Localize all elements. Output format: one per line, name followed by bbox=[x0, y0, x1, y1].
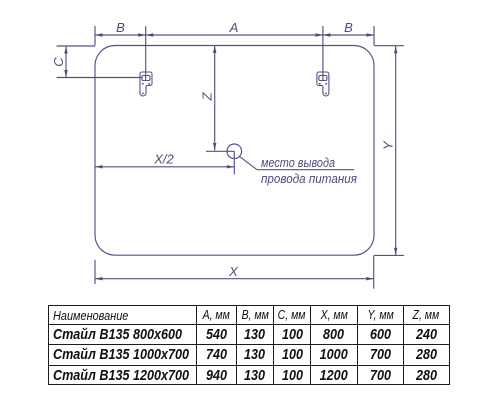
Z dimension line bbox=[214, 46, 216, 151]
svg-text:B: B bbox=[116, 20, 125, 35]
arrow X left bbox=[95, 277, 103, 280]
arrow pair at 322.9 bbox=[315, 33, 323, 36]
callout underline bbox=[257, 169, 354, 171]
arrow Y top bbox=[394, 46, 397, 54]
extension line right bracket center bbox=[322, 26, 324, 80]
X dimension line bbox=[95, 278, 374, 280]
callout text bbox=[261, 155, 357, 186]
Z bottom extension tick bbox=[206, 150, 234, 152]
extension line left bracket center bbox=[145, 26, 147, 80]
svg-text:место вывода: место вывода bbox=[261, 155, 335, 170]
X extension right bbox=[373, 256, 375, 289]
leader line to callout bbox=[240, 157, 257, 170]
vertical line below circle bbox=[233, 151, 235, 174]
arrow B left bbox=[95, 33, 103, 36]
svg-text:Z: Z bbox=[200, 91, 215, 101]
dimensions table bbox=[48, 305, 450, 385]
X extension left bbox=[94, 260, 96, 284]
arrow right B end bbox=[367, 33, 375, 36]
arrow Y bottom bbox=[394, 248, 397, 256]
arrow Z bottom bbox=[213, 143, 216, 151]
svg-text:B: B bbox=[344, 20, 353, 35]
svg-text:C: C bbox=[51, 57, 66, 67]
arrow X/2 right bbox=[227, 165, 235, 168]
extension line left edge top bbox=[94, 26, 96, 46]
arrow X right bbox=[366, 277, 374, 280]
dimension labels bbox=[51, 20, 396, 279]
right mounting bracket (mirrored) bbox=[317, 72, 329, 96]
svg-text:X: X bbox=[228, 264, 239, 279]
arrow C bottom bbox=[64, 70, 67, 78]
arrow B right / A left pair at 145.7 bbox=[138, 33, 146, 36]
C dimension line bbox=[65, 46, 67, 78]
Y extension bottom bbox=[374, 254, 404, 256]
arrowheads bbox=[64, 33, 397, 280]
arrow X/2 left bbox=[95, 165, 103, 168]
svg-text:X/2: X/2 bbox=[153, 152, 174, 167]
mirror body rounded rectangle bbox=[95, 46, 374, 256]
arrow C top bbox=[64, 46, 67, 54]
Y dimension line bbox=[395, 46, 397, 256]
arrow Z top bbox=[213, 46, 216, 54]
svg-text:Y: Y bbox=[381, 140, 396, 150]
X/2 dimension line bbox=[95, 166, 234, 168]
left mounting bracket bbox=[140, 72, 152, 96]
C extension top bbox=[57, 45, 96, 47]
Y extension top bbox=[374, 45, 404, 47]
cable exit circle bbox=[227, 144, 242, 159]
svg-text:провода питания: провода питания bbox=[261, 171, 357, 186]
C extension bottom / bracket level line bbox=[57, 77, 143, 79]
extension line right edge top bbox=[373, 26, 375, 46]
svg-text:A: A bbox=[229, 20, 239, 35]
top dimension line bbox=[95, 34, 374, 36]
